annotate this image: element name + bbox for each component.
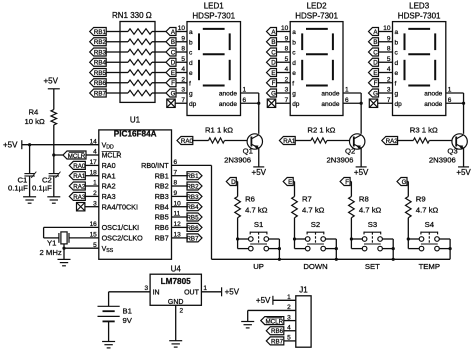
svg-text:S3: S3 (368, 220, 377, 229)
wire (276, 102, 291, 104)
wire (109, 291, 151, 293)
wire (108, 321, 110, 341)
svg-text:Q1: Q1 (243, 147, 253, 156)
net tag RA2 (382, 137, 398, 145)
wire (335, 239, 337, 259)
svg-text:OSC2/CLKO: OSC2/CLKO (102, 234, 144, 243)
svg-text:LED3: LED3 (409, 2, 430, 11)
transistor Q1 2N3906 PNP (247, 134, 262, 149)
wire (155, 41, 166, 43)
wire (360, 93, 362, 134)
wire (108, 292, 110, 307)
wire (327, 140, 350, 142)
wire (379, 31, 393, 33)
wire (446, 92, 464, 94)
svg-text:F: F (345, 179, 349, 186)
svg-text:0.1µF: 0.1µF (8, 184, 28, 193)
net tag F (340, 178, 350, 186)
svg-text:10: 10 (383, 25, 391, 32)
display LED3 seven-segment glyph (405, 29, 436, 86)
crystal Y1 2 MHz resonator (59, 232, 69, 244)
svg-text:RB1: RB1 (186, 173, 199, 180)
svg-text:F: F (171, 80, 175, 87)
svg-text:RA0: RA0 (102, 161, 116, 170)
wire (29, 145, 31, 174)
net tag RB6 (90, 79, 107, 87)
svg-text:RB6: RB6 (271, 328, 284, 335)
wire (152, 61, 155, 63)
svg-text:D: D (271, 60, 276, 67)
svg-text:OSC1/CLKI: OSC1/CLKI (102, 223, 140, 232)
net tag G for LED3 (369, 89, 379, 97)
net tag RB1 (90, 28, 107, 36)
wire (408, 248, 419, 250)
wire (449, 239, 451, 259)
display LED3 box (393, 22, 446, 116)
svg-text:2: 2 (387, 76, 391, 83)
wire (176, 31, 187, 33)
wire (44, 226, 99, 228)
svg-text:D: D (231, 179, 236, 186)
wire (277, 82, 291, 84)
pushbutton S1 (249, 232, 269, 251)
svg-text:G: G (271, 90, 276, 97)
svg-text:RA1: RA1 (73, 173, 86, 180)
svg-text:E: E (271, 70, 275, 77)
svg-text:RB2: RB2 (94, 39, 107, 46)
svg-text:J1: J1 (299, 286, 308, 295)
wire (408, 238, 419, 240)
svg-text:5: 5 (285, 56, 289, 63)
net tag G (397, 178, 407, 186)
wire (439, 248, 450, 250)
svg-text:U4: U4 (171, 264, 182, 273)
svg-text:2: 2 (180, 308, 184, 315)
junction (392, 258, 395, 261)
display LED2 seven-segment glyph (302, 29, 333, 86)
svg-text:DOWN: DOWN (303, 262, 327, 271)
+5V supply at Q1 emitter (252, 167, 267, 177)
wire (85, 185, 99, 187)
svg-text:4.7 kΩ: 4.7 kΩ (302, 206, 325, 215)
svg-text:f: f (395, 80, 397, 87)
net tag G for LED1 (166, 89, 176, 97)
svg-text:C: C (373, 49, 378, 56)
svg-text:8: 8 (285, 46, 289, 53)
svg-text:G: G (171, 90, 176, 97)
svg-text:F: F (374, 80, 378, 87)
svg-text:7: 7 (387, 97, 391, 104)
wire (172, 195, 188, 197)
junction (335, 258, 338, 261)
svg-text:2N3906: 2N3906 (429, 155, 456, 164)
resistor network RN1 box (120, 22, 155, 103)
wire (63, 244, 65, 260)
svg-text:R7: R7 (302, 195, 312, 204)
svg-text:S2: S2 (311, 220, 320, 229)
svg-text:B: B (171, 39, 175, 46)
wire (43, 227, 45, 238)
wire (258, 93, 260, 134)
svg-text:RA2: RA2 (102, 182, 116, 191)
net tag E for LED1 (166, 69, 176, 77)
ground at J1 pin 2 (241, 322, 254, 328)
svg-text:RB3: RB3 (186, 194, 199, 201)
svg-text:anode: anode (219, 101, 237, 108)
svg-text:RB6: RB6 (155, 223, 169, 232)
net tag B for LED3 (369, 38, 379, 46)
no-connect on RA4 (77, 203, 85, 211)
wire (382, 238, 393, 240)
svg-text:RB4: RB4 (155, 202, 169, 211)
svg-text:a: a (189, 29, 193, 36)
wire (398, 140, 414, 142)
svg-text:RA1: RA1 (283, 138, 296, 145)
svg-text:4: 4 (181, 66, 185, 73)
wire (85, 195, 99, 197)
junction (392, 247, 395, 250)
svg-text:LED2: LED2 (307, 2, 328, 11)
svg-text:RA1: RA1 (102, 171, 116, 180)
svg-text:RB4: RB4 (186, 204, 199, 211)
wire (247, 310, 249, 321)
wire (284, 320, 296, 322)
net tag RB2 (186, 182, 202, 190)
svg-text:5: 5 (387, 56, 391, 63)
net tag D for LED3 (369, 58, 379, 66)
pushbutton S2 (305, 232, 325, 251)
svg-text:9: 9 (181, 35, 185, 42)
net tag RB6 at J1 (266, 327, 284, 335)
svg-text:RB7: RB7 (94, 90, 107, 97)
svg-text:C: C (171, 49, 176, 56)
+5V supply tap at VDD (3, 140, 22, 149)
wire (269, 248, 280, 250)
wire (54, 154, 63, 156)
wire (446, 102, 464, 104)
wire (277, 72, 291, 74)
wire (106, 82, 120, 84)
wire (201, 291, 221, 293)
svg-text:dp: dp (292, 101, 300, 108)
ground below C2 (47, 197, 60, 203)
net tag RB4 (186, 203, 202, 211)
net tag RB5 (186, 213, 202, 221)
net tag E for LED2 (267, 69, 277, 77)
net tag D (226, 178, 236, 186)
wire (382, 248, 393, 250)
wire (258, 148, 260, 167)
svg-text:RB6: RB6 (186, 225, 199, 232)
wire (85, 164, 99, 166)
+5V supply at Q3 emitter (456, 167, 471, 177)
wire (277, 41, 291, 43)
net tag RA0 (177, 137, 193, 145)
net tag RB6 (186, 223, 202, 231)
display LED2 box (290, 22, 343, 116)
svg-text:anode: anode (424, 91, 442, 98)
wire (44, 237, 59, 239)
wire (379, 41, 393, 43)
net tag RA0 (69, 161, 86, 169)
wire (407, 181, 408, 183)
svg-text:RB7: RB7 (155, 234, 169, 243)
wire (248, 309, 296, 311)
svg-text:f: f (189, 80, 191, 87)
net tag B for LED1 (166, 38, 176, 46)
wire (241, 92, 259, 94)
wire (379, 61, 393, 63)
wire (172, 175, 188, 177)
svg-text:anode: anode (219, 91, 237, 98)
svg-text:1: 1 (203, 285, 207, 292)
wire (106, 41, 120, 43)
wire (225, 140, 248, 142)
svg-text:2N3906: 2N3906 (224, 155, 251, 164)
resistor R8 4.7k (349, 197, 355, 218)
svg-text:+5V: +5V (256, 296, 271, 305)
wire (326, 248, 337, 250)
wire (155, 51, 166, 53)
resistor R7 4.7k (292, 197, 298, 218)
svg-text:+5V: +5V (252, 168, 267, 177)
wire (293, 181, 294, 183)
wire (53, 89, 55, 110)
wire (284, 340, 296, 342)
wire (152, 51, 155, 53)
svg-text:R6: R6 (245, 195, 255, 204)
net tag RB7 at J1 (266, 337, 284, 345)
svg-text:Q2: Q2 (345, 147, 355, 156)
svg-text:9V: 9V (123, 316, 133, 325)
wire (407, 182, 409, 197)
resistor R4 (51, 110, 57, 125)
svg-text:+5V: +5V (3, 141, 18, 150)
wire (53, 125, 55, 155)
svg-text:RB5: RB5 (155, 213, 169, 222)
wire (176, 41, 187, 43)
net tag RB7 (186, 234, 202, 242)
svg-text:b: b (395, 39, 399, 46)
svg-text:RA4/T0CKI: RA4/T0CKI (102, 202, 138, 211)
display LED1 seven-segment glyph (199, 29, 230, 86)
svg-text:RN1 330 Ω: RN1 330 Ω (112, 11, 152, 20)
wire (120, 41, 128, 43)
svg-text:anode: anode (321, 101, 339, 108)
wire (463, 148, 465, 167)
junction (462, 102, 465, 105)
svg-text:+5V: +5V (354, 168, 369, 177)
svg-text:HDSP-7301: HDSP-7301 (295, 12, 338, 21)
svg-text:RA0: RA0 (73, 163, 86, 170)
wire (350, 218, 352, 249)
svg-text:B: B (271, 39, 275, 46)
svg-text:B1: B1 (123, 307, 132, 316)
svg-text:LM7805: LM7805 (161, 277, 191, 286)
wire (378, 102, 393, 104)
wire (429, 140, 452, 142)
wire (106, 51, 120, 53)
svg-text:R2 1 kΩ: R2 1 kΩ (307, 126, 335, 135)
resistor RN1 element 2 (128, 39, 152, 44)
wire (269, 238, 280, 240)
resistor R9 4.7k (406, 197, 412, 218)
svg-text:R1 1 kΩ: R1 1 kΩ (205, 126, 233, 135)
svg-text:anode: anode (424, 101, 442, 108)
svg-text:RB4: RB4 (94, 60, 107, 67)
svg-text:R9: R9 (416, 195, 426, 204)
ground below Y1 (58, 259, 71, 265)
wire (439, 238, 450, 240)
svg-text:RB5: RB5 (94, 70, 107, 77)
net tag C for LED2 (267, 48, 277, 56)
wire (379, 92, 393, 94)
svg-text:C: C (271, 49, 276, 56)
wire (106, 61, 120, 63)
resistor RN1 element 7 (128, 90, 152, 95)
svg-text:a: a (292, 29, 296, 36)
wire (343, 102, 361, 104)
svg-text:OUT: OUT (184, 289, 200, 296)
junction (293, 237, 296, 240)
net tag E (283, 178, 293, 186)
wire (120, 72, 128, 74)
wire (155, 72, 166, 74)
wire (379, 51, 393, 53)
svg-text:2: 2 (285, 76, 289, 83)
svg-text:R3 1 kΩ: R3 1 kΩ (410, 126, 438, 135)
svg-text:+5V: +5V (225, 288, 240, 297)
resistor RN1 element 1 (128, 29, 152, 34)
svg-text:Y1: Y1 (47, 239, 56, 248)
junction at VSS (62, 247, 65, 250)
wire (176, 51, 187, 53)
svg-text:7: 7 (181, 97, 185, 104)
wire (295, 140, 311, 142)
net tag D for LED2 (267, 58, 277, 66)
wire (295, 248, 306, 250)
svg-text:RB1: RB1 (155, 171, 169, 180)
junction (350, 237, 353, 240)
wire (106, 72, 120, 74)
transistor Q3 2N3906 PNP (452, 134, 467, 149)
ground below battery (102, 342, 115, 348)
svg-text:9: 9 (387, 35, 391, 42)
wire (351, 248, 362, 250)
wire (237, 182, 239, 197)
svg-text:e: e (189, 70, 193, 77)
svg-text:d: d (395, 60, 399, 67)
wire (176, 92, 187, 94)
net tag RB4 (90, 58, 107, 66)
svg-text:MCLR: MCLR (266, 318, 284, 325)
junction (278, 258, 281, 261)
wire (155, 31, 166, 33)
svg-text:0.1µF: 0.1µF (32, 184, 52, 193)
svg-text:R4: R4 (29, 108, 40, 117)
wire (236, 181, 237, 183)
svg-text:VDD: VDD (102, 142, 114, 150)
net tag MCLR (63, 151, 86, 160)
wire (120, 61, 128, 63)
ground below regulator (169, 341, 182, 347)
net tag G for LED2 (267, 89, 277, 97)
svg-text:SET: SET (365, 262, 380, 271)
wire (172, 206, 188, 208)
net tag E for LED3 (369, 69, 379, 77)
wire (238, 248, 249, 250)
transistor Q2 2N3906 PNP (350, 134, 365, 149)
wire (152, 82, 155, 84)
wire (120, 51, 128, 53)
svg-text:MCLR: MCLR (68, 153, 86, 160)
net tag RB7 (90, 89, 107, 97)
svg-text:RB3: RB3 (94, 49, 107, 56)
svg-text:3: 3 (387, 87, 391, 94)
+5V supply at Q2 emitter (354, 167, 369, 177)
wire (277, 92, 291, 94)
svg-text:dp: dp (395, 101, 403, 108)
resistor R2 (311, 138, 327, 143)
svg-text:IN: IN (153, 289, 160, 296)
wire (392, 239, 394, 259)
resistor R6 4.7k (235, 197, 241, 218)
svg-text:RB3: RB3 (155, 192, 169, 201)
svg-text:G: G (373, 90, 378, 97)
capacitor C2 (49, 172, 61, 178)
button common bus wire (212, 258, 451, 260)
wire (172, 164, 212, 166)
wire (284, 330, 296, 332)
wire (294, 182, 296, 197)
svg-text:b: b (189, 39, 193, 46)
junction at C1 (28, 143, 31, 146)
wire (172, 226, 188, 228)
wire (277, 61, 291, 63)
net tag RB1 (186, 172, 202, 180)
svg-text:RB1: RB1 (94, 29, 107, 36)
wire (152, 92, 155, 94)
net tag D for LED1 (166, 58, 176, 66)
net tag RB2 (90, 38, 107, 46)
wire (172, 216, 188, 218)
net tag RA2 (69, 182, 86, 190)
net tag RA1 (69, 172, 86, 180)
wire (278, 239, 280, 259)
wire (106, 31, 120, 33)
net tag RB3 (90, 48, 107, 56)
junction (360, 102, 363, 105)
wire (155, 61, 166, 63)
IC U1 PIC16F84A box (99, 130, 172, 259)
svg-text:10: 10 (178, 25, 186, 32)
svg-text:8: 8 (181, 46, 185, 53)
svg-text:9: 9 (285, 35, 289, 42)
+5V supply tap above R4 (44, 77, 60, 89)
svg-text:RB6: RB6 (94, 80, 107, 87)
wire (155, 82, 166, 84)
wire (360, 148, 362, 167)
junction (407, 237, 410, 240)
net tag A for LED3 (369, 28, 379, 36)
svg-text:f: f (292, 80, 294, 87)
svg-text:Q3: Q3 (447, 147, 457, 156)
wire (152, 72, 155, 74)
net tag RB5 (90, 69, 107, 77)
svg-text:GND: GND (168, 299, 184, 306)
svg-text:dp: dp (189, 101, 197, 108)
wire (350, 181, 351, 183)
